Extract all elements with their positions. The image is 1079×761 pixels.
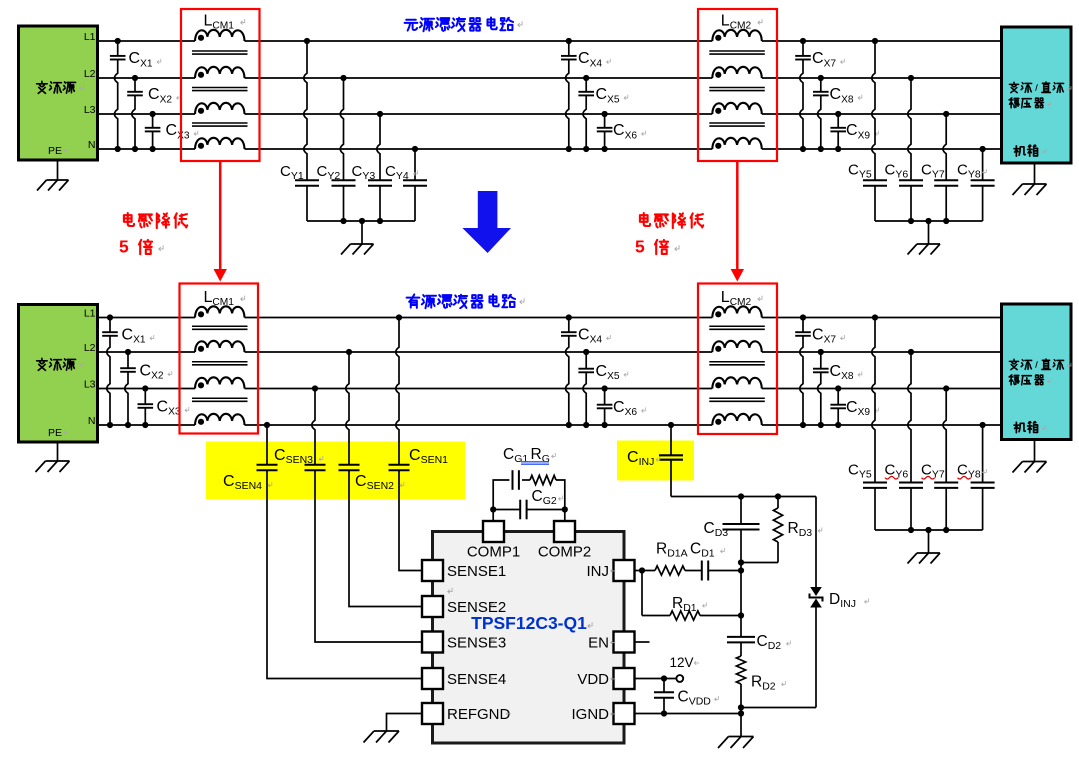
- capacitor CY6 (bottom right Y-cap group): [899, 352, 923, 530]
- junction CX8/N: [818, 146, 824, 152]
- capacitor CG2: [493, 500, 565, 520]
- junction bus/CY6: [908, 527, 914, 533]
- terminal 12V (open circle): [676, 675, 683, 682]
- svg-text:PE: PE: [48, 427, 62, 439]
- capacitor CX7 (bottom right group): [795, 318, 844, 426]
- junction rail/CD3: [738, 493, 744, 499]
- junction CX1/L1: [107, 314, 113, 320]
- resistor RD2: [736, 656, 745, 714]
- capacitor CX6 (top middle group): [597, 114, 646, 149]
- junction CX6 top: [602, 111, 608, 117]
- junction bus/CY7: [943, 218, 949, 224]
- wire IGND rail: [635, 713, 742, 715]
- capacitor CX3 (bottom left group): [138, 389, 189, 426]
- junction CX4/N: [566, 422, 572, 428]
- junction CX6 top: [602, 385, 608, 391]
- wire N bottom: LCM2 to regulator: [762, 424, 1002, 426]
- pin SENSE1: [422, 560, 443, 581]
- junction CX5/N: [583, 422, 589, 428]
- wire L3 top: LCM2 to regulator: [762, 113, 1002, 115]
- op-amp/IC U1 TPSF12C3-Q1 body: [433, 532, 625, 744]
- wire EN stub: [635, 641, 650, 643]
- resistor RD1A: [655, 566, 685, 575]
- common-mode choke LCM2 (bottom), red highlight box: [698, 284, 777, 435]
- capacitor CX1 (top left group): [110, 41, 161, 149]
- junction CX3/L3: [150, 111, 156, 117]
- junction CX9/N: [835, 146, 841, 152]
- junction CY7 top: [943, 385, 949, 391]
- wire compensation upper loop: [493, 480, 509, 510]
- red arrow (LCM2 top to LCM2 bottom): [736, 162, 739, 271]
- capacitor CSEN2 (sense cap to SENSE2): [339, 352, 423, 607]
- svg-text:IGND: IGND: [572, 706, 610, 723]
- wire L2 bottom: LCM2 to regulator: [762, 351, 1002, 353]
- red arrow (LCM1 top to LCM1 bottom): [219, 162, 222, 271]
- ground (below bottom regulator, chassis): [1034, 440, 1036, 462]
- junction CX7 top: [800, 314, 806, 320]
- junction INJ/RD1 branch: [639, 567, 645, 573]
- ground (top left Y-cap group): [361, 221, 363, 244]
- capacitor CY4 (top left Y-cap group): [403, 149, 427, 221]
- big blue down-arrow between circuits: [462, 191, 511, 253]
- svg-text:12V: 12V: [670, 655, 694, 670]
- svg-text:INJ: INJ: [587, 563, 610, 580]
- pin EN: [614, 632, 635, 653]
- ground (below top AC source): [57, 160, 59, 180]
- junction CY4 top: [412, 146, 418, 152]
- wire L3 top: LCM1 to LCM2: [245, 113, 713, 115]
- ground (below bottom AC source): [57, 442, 59, 461]
- capacitor CSEN1 (sense cap to SENSE1): [389, 318, 423, 571]
- svg-text:EN: EN: [588, 634, 609, 651]
- junction CX1/N: [107, 422, 113, 428]
- junction CY5 top: [872, 314, 878, 320]
- junction CX5 top: [583, 75, 589, 81]
- Y-cap bus wire (top left group): [307, 220, 415, 222]
- pin SENSE2: [422, 596, 443, 617]
- pin COMP2: [554, 521, 575, 542]
- junction CX4/N: [566, 146, 572, 152]
- resistor RD1: [642, 611, 741, 620]
- junction CX5/N: [583, 146, 589, 152]
- capacitor CX9 (top right group): [830, 114, 878, 149]
- junction CD3/RD3 bottom: [738, 559, 744, 565]
- svg-text:L1: L1: [84, 308, 96, 320]
- junction IGND/CVDD: [661, 710, 667, 716]
- pin SENSE3: [422, 632, 443, 653]
- svg-text:PE: PE: [48, 145, 62, 157]
- wire COMP2 riser: [564, 510, 566, 522]
- wire L1 top: source to LCM1: [98, 40, 195, 42]
- junction CY8 top: [980, 146, 986, 152]
- red annotation text 电感降低 5 倍 (right): [640, 213, 703, 228]
- capacitor CY5 (bottom right Y-cap group): [863, 318, 887, 531]
- junction column/IGND rail: [738, 710, 744, 716]
- junction CX1/N: [115, 146, 121, 152]
- wire L1 top: LCM2 to regulator: [762, 40, 1002, 42]
- junction CY3 top: [377, 111, 383, 117]
- capacitor CY5 (top right Y-cap group): [863, 41, 887, 221]
- svg-text:L2: L2: [84, 68, 96, 80]
- ground (right Y-cap group top): [928, 221, 930, 244]
- wire N bottom: LCM1 to LCM2: [245, 424, 713, 426]
- junction CY1 top: [304, 38, 310, 44]
- capacitor CX9 (bottom right group): [830, 389, 878, 426]
- junction bus/ground stem: [925, 218, 931, 224]
- title 有源滤波器电路 (active filter circuit): [407, 294, 515, 308]
- wire N top: LCM1 to LCM2: [245, 148, 713, 150]
- svg-text:COMP2: COMP2: [538, 544, 591, 561]
- junction CX2/L2: [132, 75, 138, 81]
- wire DINJ branch bottom: [815, 608, 817, 708]
- junction CX3/L3: [142, 385, 148, 391]
- wire L1 bottom: LCM1 to LCM2: [245, 317, 713, 319]
- capacitor CX3 (top left group): [145, 114, 198, 149]
- capacitor CX2 (bottom left group): [120, 352, 172, 425]
- junction CX2/L2: [125, 349, 131, 355]
- wire L2 top: source to LCM1: [98, 77, 195, 79]
- yellow highlight box (CINJ capacitor): [617, 441, 694, 481]
- wire L3 bottom: LCM1 to LCM2: [245, 388, 713, 390]
- capacitor CX7 (top right group): [795, 41, 844, 149]
- junction CX3/N: [142, 422, 148, 428]
- svg-text:N: N: [88, 139, 96, 151]
- common-mode choke LCM2 (top), red highlight box: [698, 9, 777, 161]
- junction CX7 top: [800, 38, 806, 44]
- wire RD1 branch: [641, 571, 643, 616]
- junction CSEN4 top: [264, 422, 270, 428]
- capacitor CD1: [685, 561, 741, 581]
- AC/DC regulator box 交流/直流稳压器 (top circuit): [1002, 27, 1072, 163]
- svg-text:5: 5: [635, 237, 645, 257]
- junction CSEN1 top: [396, 314, 402, 320]
- junction CX8 top: [818, 349, 824, 355]
- junction CD1/center column: [738, 567, 744, 573]
- wire L2 top: LCM2 to regulator: [762, 77, 1002, 79]
- wire injection top rail: [671, 496, 816, 498]
- red annotation text 电感降低 5 倍 (left): [124, 213, 187, 228]
- junction CX4 top: [566, 314, 572, 320]
- svg-text:L1: L1: [84, 31, 96, 43]
- blue grammar underline: [521, 461, 549, 463]
- capacitor CY7 (top right Y-cap group): [934, 114, 958, 221]
- junction CX2/N: [125, 422, 131, 428]
- junction rail/RD3: [775, 493, 781, 499]
- resistor RG: [530, 475, 556, 484]
- junction VDD/CVDD: [661, 675, 667, 681]
- ground (REFGND): [386, 730, 388, 732]
- junction bus/CY2: [340, 218, 346, 224]
- capacitor CX1 (bottom left group): [102, 318, 154, 426]
- junction CX6/N: [602, 146, 608, 152]
- AC/DC regulator box 交流/直流稳压器 (bottom circuit): [1002, 304, 1072, 440]
- capacitor CY1 (top left Y-cap group): [295, 41, 319, 221]
- junction CX7/N: [800, 146, 806, 152]
- svg-text:L2: L2: [84, 342, 96, 354]
- junction CG2/COMP2: [562, 506, 568, 512]
- junction column/DINJ return: [738, 704, 744, 710]
- junction CX3/N: [150, 146, 156, 152]
- junction bus/ground stem: [925, 527, 931, 533]
- capacitor CY8 (top right Y-cap group): [971, 149, 995, 221]
- junction CX9 top: [835, 385, 841, 391]
- pin COMP1: [483, 521, 504, 542]
- wire N top: LCM2 to regulator: [762, 148, 1002, 150]
- junction CX8/N: [818, 422, 824, 428]
- pin REFGND: [422, 703, 443, 724]
- junction CX8 top: [818, 75, 824, 81]
- capacitor CINJ (injection cap): [659, 425, 683, 497]
- junction CY6 top: [908, 75, 914, 81]
- capacitor CVDD: [654, 679, 674, 714]
- svg-text:VDD: VDD: [577, 671, 609, 688]
- capacitor CSEN3 (sense cap to SENSE3): [305, 389, 423, 643]
- svg-text:SENSE3: SENSE3: [447, 634, 506, 651]
- diode DINJ (bidirectional TVS): [810, 587, 823, 608]
- AC source box 交流源 (bottom circuit): [19, 305, 98, 443]
- yellow highlight box (CSEN capacitors): [206, 442, 465, 500]
- junction CSEN3 top: [312, 385, 318, 391]
- junction CX9/N: [835, 422, 841, 428]
- junction CX7/N: [800, 422, 806, 428]
- junction RD1/center column: [738, 612, 744, 618]
- capacitor CX2 (top left group): [127, 78, 180, 149]
- wire INJ pin to RD1A: [635, 570, 656, 572]
- junction CSEN2 top: [346, 349, 352, 355]
- wire L1 bottom: source to LCM1: [98, 317, 195, 319]
- pin INJ: [614, 560, 635, 581]
- junction CY5 top: [872, 38, 878, 44]
- common-mode choke LCM1 (top), red highlight box: [181, 9, 260, 161]
- capacitor CX8 (top right group): [813, 78, 862, 149]
- junction CY7 top: [943, 111, 949, 117]
- svg-text:REFGND: REFGND: [447, 706, 511, 723]
- svg-text:COMP1: COMP1: [467, 544, 520, 561]
- wire L3 bottom: LCM2 to regulator: [762, 388, 1002, 390]
- junction CX5 top: [583, 349, 589, 355]
- svg-text:SENSE4: SENSE4: [447, 671, 506, 688]
- capacitor CG1: [512, 470, 514, 490]
- junction bus/CY6: [908, 218, 914, 224]
- wire L2 bottom: source to LCM1: [98, 351, 195, 353]
- wire L1 top: LCM1 to LCM2: [245, 40, 713, 42]
- pin IGND: [614, 703, 635, 724]
- Y-cap bus wire (right group): [875, 220, 983, 222]
- junction CX9 top: [835, 111, 841, 117]
- capacitor CX6 (bottom middle group): [597, 389, 646, 426]
- svg-text:L3: L3: [84, 379, 96, 391]
- wire column CD3 to CD2: [740, 563, 742, 637]
- junction CX2/N: [132, 146, 138, 152]
- ground (IGND): [740, 714, 742, 737]
- capacitor CY8 (bottom right Y-cap group): [971, 425, 995, 530]
- capacitor CY6 (top right Y-cap group): [899, 78, 923, 221]
- wire REFGND to ground: [387, 714, 423, 732]
- Y-cap bus wire (right group): [875, 529, 983, 531]
- ground (right Y-cap group bottom): [928, 530, 930, 553]
- junction CG2/COMP1: [490, 506, 496, 512]
- ground (below top regulator, chassis): [1034, 163, 1036, 184]
- junction CX1/L1: [115, 38, 121, 44]
- wire N bottom: source to LCM1: [98, 424, 195, 426]
- wire N top: source to LCM1: [98, 148, 195, 150]
- capacitor CSEN4 (sense cap to SENSE4): [257, 425, 423, 679]
- capacitor CX4 (top middle group): [561, 41, 610, 149]
- AC source box 交流源 (top circuit): [19, 26, 98, 160]
- svg-text:N: N: [88, 415, 96, 427]
- capacitor CX8 (bottom right group): [813, 352, 862, 425]
- junction bus/CY7: [943, 527, 949, 533]
- capacitor CD2: [727, 637, 755, 656]
- junction CINJ/N: [668, 422, 674, 428]
- wire L3 bottom: source to LCM1: [98, 388, 195, 390]
- svg-text:TPSF12C3-Q1: TPSF12C3-Q1: [471, 613, 587, 633]
- junction CY2 top: [340, 75, 346, 81]
- junction bus/ground stem: [359, 218, 365, 224]
- capacitor CD3: [723, 497, 760, 563]
- capacitor CX5 (top middle group): [578, 78, 627, 149]
- pin SENSE4: [422, 668, 443, 689]
- title 无源滤波器电路 (passive filter circuit): [405, 17, 513, 31]
- common-mode choke LCM1 (bottom), red highlight box: [180, 284, 259, 434]
- wire L1 bottom: LCM2 to regulator: [762, 317, 1002, 319]
- junction CY8 top: [980, 422, 986, 428]
- resistor RD3: [741, 497, 783, 563]
- capacitor CY2 (top left Y-cap group): [332, 78, 356, 221]
- junction CX4 top: [566, 38, 572, 44]
- wire L2 bottom: LCM1 to LCM2: [245, 351, 713, 353]
- capacitor CY3 (top left Y-cap group): [368, 114, 392, 221]
- svg-text:L3: L3: [84, 104, 96, 116]
- wire L3 top: source to LCM1: [98, 113, 195, 115]
- junction CX6/N: [602, 422, 608, 428]
- junction CY6 top: [908, 349, 914, 355]
- wire COMP1 riser: [492, 510, 494, 522]
- wire VDD to 12V terminal: [635, 678, 677, 680]
- capacitor CY7 (bottom right Y-cap group): [934, 389, 958, 531]
- wire DINJ branch top: [815, 497, 817, 588]
- pin VDD: [614, 668, 635, 689]
- capacitor CX4 (bottom middle group): [561, 318, 610, 426]
- wire L2 top: LCM1 to LCM2: [245, 77, 713, 79]
- svg-text:SENSE2: SENSE2: [447, 599, 506, 616]
- capacitor CX5 (bottom middle group): [578, 352, 627, 425]
- svg-text:5: 5: [119, 237, 129, 257]
- junction bus/CY3: [377, 218, 383, 224]
- svg-text:SENSE1: SENSE1: [447, 563, 506, 580]
